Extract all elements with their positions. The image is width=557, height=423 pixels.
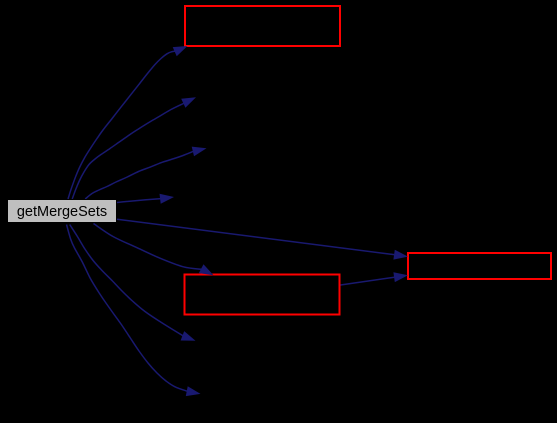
svg-text:getMergeSets: getMergeSets <box>17 204 107 220</box>
